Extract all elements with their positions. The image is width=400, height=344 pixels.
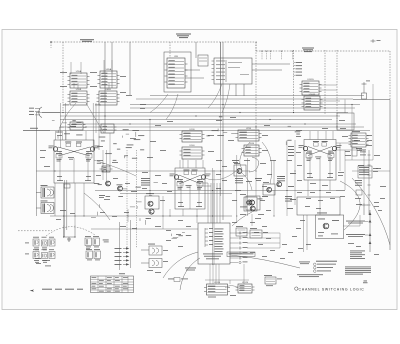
- wire - Q340 internal verticals: [310, 151, 330, 181]
- label PULSE GEN BOARD note left: [80, 39, 94, 40]
- wire - top dashed pulse-gen interconnect rail left: [51, 41, 258, 43]
- wire - left rail x36.5: [36, 113, 38, 217]
- label REFERENCE DIAGRAMS header: [316, 261, 337, 262]
- interconnect block U1090: [198, 223, 230, 264]
- wire - Q140 internal verticals: [60, 151, 88, 183]
- wire - verticals to legend: [304, 215, 308, 252]
- wire - sweep curve to right rail: [352, 178, 390, 245]
- legend entry 2 with circled numeral: [314, 266, 334, 269]
- dashed enclosure around U95: [164, 52, 191, 92]
- wire - dashed shield line bottom left: [18, 230, 52, 232]
- label INTERFACE right: [302, 48, 314, 53]
- gate box around Q253: [234, 163, 246, 176]
- resistor network Q340 lower left: [306, 153, 312, 161]
- transistor Q140Qb right: [90, 147, 94, 151]
- small box right area: [337, 113, 354, 130]
- svg-text:U55B: U55B: [76, 89, 82, 91]
- regulator box Q1095: [316, 213, 344, 239]
- wire - Q240 cross coupling: [179, 175, 201, 184]
- label cluster under mid ICs: [91, 183, 158, 225]
- IC U130 gate: [180, 129, 205, 142]
- annotation pointer arrow bottom left: [30, 290, 34, 292]
- cell D lower section box: [297, 197, 340, 215]
- label Q140 transistor refs: [49, 146, 100, 149]
- wire - drop at x220: [220, 42, 222, 95]
- wire - S curve between bottom ICs: [225, 286, 238, 289]
- label Q240 base resistors: [183, 170, 197, 175]
- transistor Q178: [118, 186, 123, 191]
- transistor Q193: [149, 209, 154, 214]
- wire - sweep curve block to bottom ICs: [180, 258, 200, 290]
- label cluster around x220 rail: [207, 116, 236, 136]
- svg-text:U1110: U1110: [214, 282, 221, 284]
- label notes paragraph right: [345, 267, 371, 275]
- wire - below block bundle: [210, 264, 244, 284]
- label voltage conditions note left of legend: [299, 262, 310, 265]
- transistor Q290: [250, 200, 255, 205]
- label Q240 interior annotations: [178, 179, 202, 207]
- wire - bus line F: [74, 123, 356, 125]
- wire - drop at x51: [50, 42, 52, 48]
- connector pin label column P1011: [294, 62, 303, 76]
- revision history table: [91, 276, 134, 293]
- transistor Q1095: [323, 223, 329, 229]
- wire - bus line A: [130, 104, 360, 106]
- wire - Q240 internal verticals: [181, 179, 199, 209]
- wire - drop at x170: [169, 42, 171, 58]
- label component values block: [350, 251, 365, 259]
- filter group right A: [85, 236, 109, 249]
- label cluster mid-left column: [97, 134, 137, 164]
- IC U140 gate: [180, 145, 205, 159]
- wire - cell B top stubs: [180, 159, 203, 168]
- wire - bus line A1: [136, 98, 353, 100]
- wire - dashed rail x136.5: [136, 150, 138, 248]
- amplifier stage box Q290: [246, 196, 260, 210]
- wire - drop at x105: [104, 42, 106, 133]
- IC U1130 small: [264, 275, 282, 286]
- resistor group R175: [141, 178, 150, 186]
- resistor network Q140 lower left: [56, 153, 62, 161]
- wire - verticals to table: [120, 220, 131, 270]
- Q240 cell enclosure: [175, 168, 205, 209]
- wire - U105 bottom leads: [235, 84, 237, 96]
- svg-text:U1055: U1055: [307, 79, 314, 81]
- coil group L245: [141, 244, 168, 273]
- label circled diagram number: [295, 287, 298, 290]
- gate box around Q263/Q268: [244, 197, 263, 211]
- capacitor C255 curve: [249, 157, 259, 172]
- label TYPE oscilloscope footer text: [42, 289, 83, 290]
- small box U91 at top: [198, 55, 208, 66]
- wire - Q140 cross coupling: [58, 147, 90, 156]
- ground symbol: [67, 237, 71, 241]
- transistor Q263: [247, 200, 252, 205]
- wire - cluster verticals: [237, 155, 274, 215]
- wire - drop at x256: [255, 42, 257, 130]
- transistor Q253: [237, 169, 242, 174]
- wire - sweep curve from cluster into block: [232, 212, 252, 226]
- wire - Q340 cross coupling: [308, 147, 332, 156]
- label framed note MADE FROM: [227, 252, 255, 257]
- label cluster refs: [232, 160, 268, 215]
- IC U55A switching gate: [68, 70, 90, 88]
- IC U125 gate: [99, 124, 117, 133]
- resistor cluster R365 lower right: [338, 166, 378, 178]
- node supply junction above regulator: [360, 203, 368, 215]
- wire - U105 output to right header: [252, 63, 290, 65]
- wire - drop at x196: [195, 42, 197, 58]
- node - top rail junction at x51: [50, 41, 52, 43]
- IC U1120 output buffer: [236, 282, 255, 293]
- wire - dashed shield arc: [46, 227, 95, 236]
- wire - sweep curve from cell D down right: [340, 181, 360, 230]
- annotation trademark symbol above title: [363, 281, 368, 284]
- filter group L1140: [33, 237, 55, 250]
- wire - drop at x223: [222, 42, 224, 220]
- label table tag: [119, 272, 125, 275]
- label sprinkles near chips: [60, 72, 386, 207]
- wire - cell B bottom feeds: [183, 168, 214, 265]
- label TO VERT OUTPUT upper: [346, 221, 369, 224]
- transistor Q268: [250, 206, 255, 211]
- wire - dashed rail x127: [126, 150, 128, 250]
- label Q340 base resistors: [313, 141, 328, 146]
- IC U1110 output buffer: [204, 282, 230, 295]
- IC U1065 lamp driver: [302, 94, 323, 110]
- resistor R1090 supply dropper: [362, 93, 367, 99]
- label cluster above cell A: [52, 120, 83, 138]
- resistor R355 column: [355, 148, 362, 205]
- label Q340 interior annotations: [307, 151, 333, 178]
- transistor Q173: [106, 181, 111, 186]
- IC U65A switching gate: [98, 68, 120, 88]
- IC U1055 lamp driver: [300, 79, 322, 95]
- node +5V supply point right: [362, 81, 371, 94]
- label cluster left of cell D: [286, 126, 300, 145]
- wire - right rail ticks: [368, 150, 371, 215]
- node - junction dots round2: [54, 170, 364, 216]
- svg-text:U65A: U65A: [106, 68, 112, 71]
- connector pin column right of block: [230, 232, 248, 264]
- wire - supply feed line right: [353, 99, 390, 101]
- resistor column R300: [287, 146, 296, 209]
- node - bus junction dots: [62, 104, 352, 131]
- wire - rail tick drops right section: [261, 51, 294, 60]
- wire - drop at x325: [324, 50, 326, 115]
- wire - cell D stubs: [308, 131, 333, 215]
- wire - curves cluster to cells: [94, 160, 252, 190]
- wire - sweep curve left cell A to ground arc: [84, 193, 110, 220]
- label cluster above coils: [172, 233, 192, 239]
- wire - drop at x337: [336, 50, 338, 130]
- transistor Q240Qa left: [174, 175, 178, 179]
- diode CR345 group: [345, 148, 366, 156]
- annotation cross at top right: [371, 39, 381, 43]
- wire - bus line A0: [150, 95, 364, 97]
- power entry labels +50V etc: [115, 247, 130, 265]
- wire - chip-to-bus verticals top left: [60, 60, 112, 150]
- IC U350 readout switch: [349, 131, 373, 147]
- IC U120 gate: [68, 122, 86, 130]
- resistor hatch right of Q283: [277, 176, 285, 181]
- resistor hatch under Q253: [235, 178, 243, 183]
- filter group right B: [86, 249, 101, 260]
- transformer T170: [36, 185, 54, 198]
- label Q190 parts: [146, 193, 165, 201]
- wire - cell A top stubs: [56, 131, 86, 140]
- IC U95 trigger selector: [165, 56, 188, 88]
- resistor network Q340 lower right: [328, 153, 334, 161]
- wire - cell A bottom feeds: [55, 183, 84, 225]
- wire - right vertical rail from supply: [389, 100, 391, 251]
- wire - U95 outputs right: [185, 69, 200, 71]
- svg-text:U240: U240: [249, 143, 255, 145]
- wire - bundle into block top: [197, 183, 220, 223]
- resistor network Q240 lower right: [197, 181, 203, 189]
- wire - bus line C: [36, 112, 348, 114]
- label Q340 transistor refs: [299, 145, 342, 148]
- wire - drop at x390: [389, 51, 391, 99]
- transistor Q340Qb right: [332, 146, 336, 150]
- label mid cluster refs: [99, 195, 110, 200]
- filter group L1150: [33, 249, 55, 262]
- svg-text:U65B: U65B: [105, 89, 111, 91]
- gate box around Q273: [263, 182, 275, 195]
- label Q140 base resistors: [65, 142, 82, 147]
- wire - block right pin links: [247, 233, 280, 248]
- amplifier stage box Q190: [145, 196, 159, 209]
- wire - bus line B: [130, 107, 355, 109]
- wire - bottom line y229: [91, 228, 198, 230]
- IC U105 channel switch block: [212, 58, 253, 84]
- label below block: [185, 268, 196, 271]
- label sprinkles mid band: [40, 150, 345, 219]
- wire - bus line G: [60, 126, 364, 128]
- wire - output arrow rail x370: [369, 210, 372, 252]
- svg-text:U140: U140: [189, 145, 195, 147]
- transformer T180: [36, 201, 54, 214]
- transistor Q190: [148, 201, 153, 206]
- svg-text:U1120: U1120: [242, 282, 249, 284]
- wire - bus line D: [60, 115, 340, 117]
- diode box CR1094: [250, 228, 268, 238]
- label cluster x115 y126: [123, 129, 145, 150]
- label bottom left of ICs: [168, 278, 188, 282]
- wire - drop at x63: [62, 42, 64, 112]
- label bottom IC refs: [208, 295, 236, 297]
- wire - sweep curve block to lower-left coils: [163, 252, 198, 278]
- label Q1095 parts: [318, 219, 339, 237]
- transistor Q240Qb right: [201, 175, 205, 179]
- connector J1011 left edge: [29, 107, 60, 118]
- resistor network Q140 lower right: [86, 153, 92, 161]
- wire - mid bus y193.5: [120, 193, 232, 195]
- label TO PULSE GEN center: [176, 34, 191, 39]
- wire - ground feeds: [63, 225, 75, 238]
- IC U55B switching gate: [68, 89, 90, 105]
- label cluster lower left refs: [25, 243, 51, 267]
- IC U230 gate: [236, 128, 262, 141]
- wire - bus line E: [60, 119, 332, 121]
- wire - top mid S curves into bus: [58, 84, 230, 133]
- label Q140 interior annotations: [57, 151, 91, 181]
- wire - mid bus y190.5: [95, 190, 345, 192]
- label sprinkles bottom band: [56, 202, 382, 259]
- label ground ref left: [23, 128, 50, 131]
- wire - drop at x293: [293, 50, 295, 113]
- IC U240 gate: [242, 143, 262, 156]
- wire - drop at x112: [111, 42, 113, 88]
- wire - bottom bus y216: [50, 215, 232, 217]
- transistor Q340Qa left: [303, 146, 307, 150]
- resistor network Q240 lower left: [177, 181, 183, 189]
- wire - top dashed pulse-gen interconnect rail right: [256, 50, 390, 52]
- transistor Q273: [267, 187, 272, 192]
- wire - toroid rails: [64, 180, 70, 237]
- transistor Q140Qa left: [53, 147, 57, 151]
- wire - verticals mid sheet: [103, 42, 373, 229]
- svg-text:CHANNEL SWITCHING LOGIC: CHANNEL SWITCHING LOGIC: [299, 287, 365, 291]
- legend entry 3 with circled numeral: [314, 270, 332, 273]
- svg-text:U230: U230: [246, 128, 252, 130]
- resistor column R260: [285, 196, 292, 202]
- IC U65B switching gate: [97, 89, 120, 105]
- svg-text:U130: U130: [189, 129, 195, 131]
- transistor Q283: [277, 182, 282, 187]
- wire - rail step at x256: [255, 42, 257, 51]
- diode box CR1092: [236, 226, 247, 236]
- label TO HORIZ OUTPUT lower: [346, 234, 369, 237]
- wire - lamp driver chip outputs: [319, 85, 345, 113]
- wire - right side horizontals: [336, 143, 390, 226]
- IC U160 inverter: [100, 166, 113, 172]
- wire - bottom link line y280: [205, 280, 249, 284]
- label Q240 transistor refs: [170, 174, 211, 177]
- wire - drop at x130: [129, 42, 131, 95]
- label SEE PARTS LIST note: [297, 274, 323, 277]
- wire - mid bus y171: [36, 170, 250, 172]
- Q340 cell enclosure: [304, 140, 336, 181]
- wire - bus line H: [23, 130, 370, 132]
- Q140 cell enclosure: [54, 140, 94, 183]
- wire - sweep curve right to legend area: [230, 255, 300, 268]
- legend entry 1 with circled numeral: [314, 263, 337, 266]
- wire - curves U230 to cluster: [240, 142, 272, 184]
